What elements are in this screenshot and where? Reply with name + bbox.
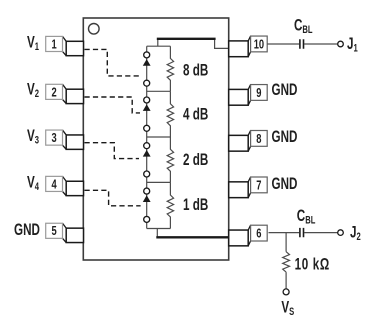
svg-text:GND: GND: [14, 220, 40, 238]
svg-text:GND: GND: [272, 174, 298, 192]
svg-text:1: 1: [51, 38, 56, 52]
svg-text:2: 2: [51, 86, 56, 100]
svg-text:2 dB: 2 dB: [183, 150, 208, 168]
svg-text:1 dB: 1 dB: [183, 195, 208, 213]
svg-text:7: 7: [256, 179, 261, 193]
svg-text:3: 3: [51, 132, 56, 146]
svg-text:5: 5: [51, 225, 56, 239]
svg-text:GND: GND: [272, 80, 298, 98]
svg-text:4 dB: 4 dB: [183, 105, 208, 123]
svg-text:8 dB: 8 dB: [183, 61, 208, 79]
svg-text:8: 8: [256, 132, 261, 146]
svg-text:10 kΩ: 10 kΩ: [295, 255, 330, 273]
svg-text:GND: GND: [272, 127, 298, 145]
svg-text:6: 6: [256, 227, 261, 241]
svg-text:9: 9: [256, 87, 261, 101]
svg-text:10: 10: [254, 38, 264, 52]
svg-text:4: 4: [51, 178, 57, 192]
